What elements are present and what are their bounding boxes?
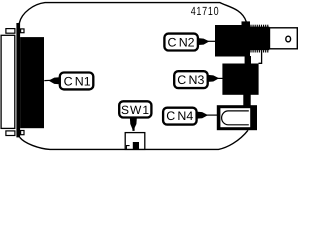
connector CN1 top screw tab <box>6 29 15 34</box>
label SW1 arrow stub <box>132 127 134 131</box>
connector CN2 thread teeth bottom <box>250 50 268 52</box>
connector CN1 bottom nub <box>21 131 24 135</box>
wire case outline bottom edge <box>20 130 248 149</box>
connector CN4 jack opening <box>220 108 250 127</box>
switch SW1 corner notch <box>126 146 129 150</box>
label CN4 arrow <box>197 112 208 119</box>
wire stem CN3 to CN4 <box>243 95 250 106</box>
label CN3 arrow line <box>217 77 223 79</box>
svg-text:C: C <box>168 35 177 49</box>
wire case outline top edge <box>19 3 246 24</box>
svg-text:C: C <box>64 74 73 88</box>
connector CN1 top nub <box>21 29 24 33</box>
wire case outline right segment between CN2 and CN3 <box>259 50 262 63</box>
switch SW1 box <box>125 133 145 150</box>
label CN1 arrow <box>49 77 60 84</box>
connector CN2 threaded section <box>250 27 269 51</box>
label CN4 arrow line <box>206 114 217 116</box>
connector CN4 jack inner C contour <box>222 111 249 125</box>
label SW1 box <box>119 101 151 117</box>
svg-text:C: C <box>166 109 175 123</box>
label CN3 arrow <box>208 75 219 82</box>
label CN2 box <box>164 34 198 51</box>
connector CN2 body <box>215 25 250 57</box>
connector CN3 body <box>222 64 258 95</box>
svg-text:N3: N3 <box>189 73 205 87</box>
connector CN2 barrel jack pin hole o <box>286 36 291 42</box>
connector CN2 body top bump <box>242 21 251 26</box>
label CN1 box <box>60 73 94 90</box>
connector CN1 faceplate <box>1 35 15 128</box>
label CN3 box <box>174 71 208 88</box>
connector CN2 thread teeth top <box>250 25 268 27</box>
svg-text:N2: N2 <box>179 35 195 49</box>
connector CN1 bottom screw tab <box>6 131 15 136</box>
label SW1 arrow <box>130 119 137 130</box>
wire stem CN2 to CN3 <box>245 56 251 64</box>
connector CN2 barrel jack body <box>270 28 298 49</box>
svg-text:SW1: SW1 <box>121 103 150 117</box>
label CN4 box <box>163 108 197 125</box>
connector CN1 flange bar <box>16 23 20 137</box>
connector CN4 jack outer body <box>217 105 257 130</box>
label CN2 arrow <box>198 38 209 45</box>
connector CN1 body <box>20 37 44 128</box>
label CN1 arrow line <box>44 79 51 81</box>
svg-text:N4: N4 <box>177 109 193 123</box>
svg-text:41710: 41710 <box>191 4 220 18</box>
svg-text:C: C <box>177 73 186 87</box>
svg-text:N1: N1 <box>75 74 91 88</box>
label CN2 arrow line <box>207 40 215 42</box>
switch SW1 plunger <box>133 142 139 149</box>
